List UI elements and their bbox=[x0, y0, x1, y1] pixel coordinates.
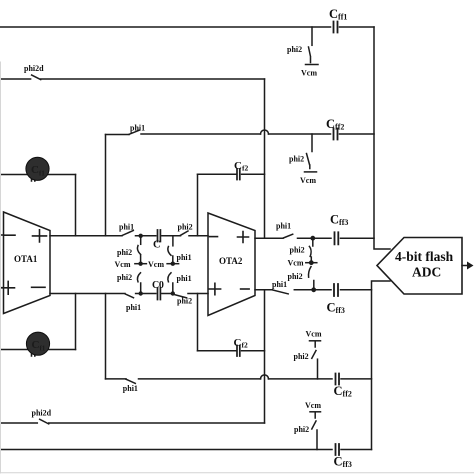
capacitor C0 bbox=[158, 288, 161, 300]
node dot bbox=[310, 236, 315, 241]
OTA1 input stubs bbox=[0, 235, 4, 288]
switch phi1 (right chain lower) bbox=[168, 273, 171, 282]
wire Cff2 top rail y=134 bbox=[106, 133, 375, 136]
wire Cf2 top line y=174.3 bbox=[198, 173, 265, 175]
wire vertical OTA1 top output to Cff2 rail bbox=[105, 135, 107, 236]
svg-text:phi1: phi1 bbox=[119, 223, 134, 232]
ADC block bbox=[377, 238, 462, 295]
switch phi2d (top) bbox=[32, 75, 41, 80]
svg-text:Vcm: Vcm bbox=[300, 176, 316, 185]
wire vertical OTA1 bottom output to Cf1 bottom line bbox=[75, 294, 77, 350]
OTA1 body bbox=[4, 212, 51, 314]
switch phi1 (rail A) bbox=[123, 231, 134, 236]
capacitor Cff2 bottom bbox=[336, 374, 340, 385]
wire vertical Cf2 top to OTA2 top input bbox=[197, 174, 199, 236]
wire bottom feedforward rail y=449.5 bbox=[0, 449, 372, 451]
svg-text:phi1: phi1 bbox=[126, 303, 141, 312]
switch phi1 (top Cff2 rail) bbox=[129, 130, 139, 134]
switch phi2 (tap to Vcm, top rail) bbox=[309, 47, 311, 63]
OTA1 minus (bottom output) bbox=[32, 286, 45, 288]
Vcm node dot + tick bbox=[306, 262, 317, 264]
svg-text:ADC: ADC bbox=[412, 265, 441, 280]
svg-text:phi1: phi1 bbox=[177, 274, 192, 283]
capacitor Cf1 bottom bar stubs bbox=[32, 350, 35, 357]
switch phi1 (OTA2 top output) bbox=[283, 234, 292, 238]
capacitor Cf2 top bbox=[237, 169, 240, 180]
capacitor Cf1 circle (bottom, highlighted) bbox=[26, 332, 49, 355]
Vcm terminal bar bbox=[310, 411, 321, 413]
wire stub to Vcm node bbox=[140, 255, 142, 264]
wire stub to rail B bbox=[140, 283, 142, 294]
switch phi1 (rail B) bbox=[125, 294, 133, 298]
stub to bottom node bbox=[313, 281, 315, 290]
svg-text:Vcm: Vcm bbox=[301, 69, 317, 78]
wire vertical OTA2 bottom input to Cf2 bottom line bbox=[197, 294, 199, 351]
wire vertical from phi2d rail down to OTA2 top output (hops over y=134) bbox=[264, 79, 266, 238]
switch phi1 (right chain upper) bbox=[168, 247, 171, 256]
bottom faint border bbox=[0, 472, 474, 474]
OTA2 minus (top input) bbox=[210, 236, 218, 238]
svg-text:phi1: phi1 bbox=[272, 280, 287, 289]
switch phi1 (OTA2 bottom output) bbox=[273, 290, 289, 294]
wire Cf1 bottom line y=349.5 bbox=[0, 349, 76, 351]
svg-text:phi2: phi2 bbox=[289, 155, 304, 164]
switch phi1 (bottom Cff2 rail) bbox=[126, 379, 135, 383]
svg-text:Vcm: Vcm bbox=[306, 330, 322, 339]
wire vertical Cf1 top to OTA1 top output bbox=[75, 175, 77, 236]
svg-text:phi1: phi1 bbox=[177, 253, 192, 262]
svg-text:Vcm: Vcm bbox=[148, 260, 164, 269]
svg-text:phi2: phi2 bbox=[294, 352, 309, 361]
Vcm terminal bar bbox=[310, 340, 321, 342]
svg-text:phi1: phi1 bbox=[123, 384, 138, 393]
capacitor Cff3 (bottom outer) bbox=[336, 444, 340, 455]
right chain: stub from rail A bbox=[172, 236, 174, 246]
wire hop over vertical at x=264.5 bbox=[261, 130, 269, 134]
capacitor Cf1 circle (top, highlighted) bbox=[26, 157, 49, 180]
svg-text:C0: C0 bbox=[152, 280, 164, 291]
switch phi2 (tap to Vcm, Cff2 rail) bbox=[307, 154, 310, 169]
node tap on Cff2 rail bbox=[311, 134, 313, 152]
Vcm terminal bar bbox=[305, 171, 317, 173]
switch phi2d (bottom) bbox=[40, 419, 49, 424]
switch phi2 (rail A, before OTA2) bbox=[181, 231, 189, 235]
wire phi2d bottom rail y=422.5 bbox=[0, 422, 265, 424]
wire stub to Vcm node bbox=[172, 256, 174, 264]
switch phi2 (tap, bottom outer rail) bbox=[312, 412, 316, 429]
svg-text:phi1: phi1 bbox=[130, 124, 145, 133]
wire rail B: OTA1 bottom output to OTA2 bottom input y=293.5 bbox=[50, 293, 208, 295]
switch phi2 (left chain upper) bbox=[137, 246, 140, 255]
svg-text:phi2d: phi2d bbox=[32, 409, 52, 418]
OTA2 body bbox=[208, 213, 255, 316]
capacitor C bbox=[158, 230, 161, 242]
switch phi2 (left chain lower) bbox=[137, 273, 140, 282]
wire vertical OTA2 bottom output down to phi2d bottom rail (hops y=379) bbox=[264, 290, 266, 423]
tap to Vcm (bottom Cff2 rail) bbox=[317, 359, 319, 379]
svg-text:OTA2: OTA2 bbox=[219, 256, 243, 266]
Vcm terminal bar bbox=[306, 64, 319, 66]
wire Cf1 top line y=174.5 bbox=[0, 174, 76, 176]
summing bus top (to ADC upper input) bbox=[374, 27, 390, 249]
wire Cf2 bottom line y=350.8 bbox=[198, 350, 265, 352]
switch phi2 (rail B, before OTA2) bbox=[174, 294, 187, 298]
svg-text:phi2: phi2 bbox=[178, 223, 193, 232]
svg-text:phi2: phi2 bbox=[287, 45, 302, 54]
svg-text:phi2: phi2 bbox=[290, 246, 305, 255]
capacitor Cff2 bbox=[334, 129, 338, 140]
OTA1 minus (top input) bbox=[4, 234, 15, 236]
OTA2 plus (bottom input) bbox=[209, 283, 220, 294]
svg-text:OTA1: OTA1 bbox=[14, 254, 38, 264]
svg-text:Vcm: Vcm bbox=[288, 259, 304, 268]
node A junction dot bbox=[139, 234, 143, 238]
capacitor Cf2 bottom bbox=[237, 346, 240, 357]
switch phi2 (chain lower) bbox=[309, 267, 311, 278]
left chain: stub from node A bbox=[140, 236, 142, 245]
left page edge faint border bbox=[0, 62, 2, 473]
wire rail A: OTA1 top output to OTA2 top input y=235.8 bbox=[50, 235, 208, 237]
wire hop over vertical at x=264.5 (bottom) bbox=[261, 375, 269, 379]
OTA2 plus (top output) bbox=[238, 232, 249, 243]
svg-text:Vcm: Vcm bbox=[115, 260, 131, 269]
svg-text:C: C bbox=[153, 240, 161, 251]
svg-text:Vcm: Vcm bbox=[305, 401, 321, 410]
svg-text:phi2: phi2 bbox=[177, 296, 192, 305]
wire phi2d input rail y=79 bbox=[0, 78, 265, 80]
OTA1 plus (bottom input) bbox=[2, 281, 15, 294]
svg-text:4-bit flash: 4-bit flash bbox=[395, 249, 454, 264]
svg-text:phi2: phi2 bbox=[288, 272, 303, 281]
svg-text:phi2: phi2 bbox=[117, 248, 132, 257]
wire Cff2 bottom rail y=378.9 bbox=[106, 378, 372, 380]
switch phi2 (chain upper) bbox=[309, 246, 311, 256]
svg-text:phi2d: phi2d bbox=[24, 64, 44, 73]
bottom node dot bbox=[311, 287, 316, 292]
OTA2 top output line y=237.7 bbox=[255, 237, 374, 239]
node tap on Cff1 rail bbox=[311, 27, 313, 45]
tap to Vcm (bottom outer rail) bbox=[316, 430, 318, 450]
switch phi2 (tap, bottom Cff2 rail) bbox=[312, 341, 316, 358]
Vcm node dot + tick bbox=[135, 263, 147, 265]
svg-text:phi2: phi2 bbox=[294, 425, 309, 434]
capacitor Cf1 bar stubs (under circle) bbox=[32, 175, 35, 182]
svg-text:phi2: phi2 bbox=[117, 273, 132, 282]
stub to Vcm node bbox=[310, 257, 312, 263]
wire stub to rail B bbox=[172, 283, 174, 294]
capacitor Cff3 top bbox=[335, 232, 339, 244]
OTA2 output chain: stub bbox=[312, 238, 314, 246]
wire vertical OTA1 bottom output to phi1 bottom rail bbox=[105, 294, 107, 379]
OTA2 minus (bottom output) bbox=[241, 288, 250, 290]
wire top feedforward rail y=27 bbox=[0, 26, 374, 28]
Vcm node dot + tick bbox=[167, 263, 179, 265]
node dots rail B bbox=[139, 291, 143, 295]
OTA1 plus (top output) bbox=[33, 230, 47, 242]
svg-text:phi1: phi1 bbox=[276, 221, 291, 230]
summing bus bottom (to ADC lower input) bbox=[372, 281, 391, 450]
capacitor Cff3 bottom bbox=[334, 284, 338, 296]
ADC output wire + arrowhead bbox=[462, 265, 467, 267]
OTA2 bottom output line y=289.8 bbox=[255, 289, 372, 291]
capacitor Cff1 bbox=[334, 22, 338, 33]
